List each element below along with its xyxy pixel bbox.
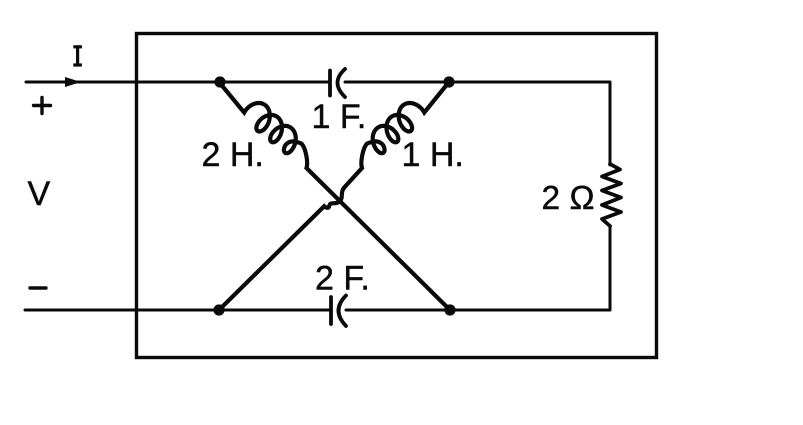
svg-text:V: V <box>28 175 51 213</box>
svg-text:2 Ω: 2 Ω <box>542 180 595 217</box>
label − <box>30 286 46 289</box>
svg-text:2 H.: 2 H. <box>202 136 264 174</box>
svg-text:2 F.: 2 F. <box>315 260 370 298</box>
resistor R1 <box>602 164 621 226</box>
node A <box>214 76 225 87</box>
current arrow I <box>65 77 81 87</box>
label I <box>73 47 82 65</box>
inductor L2 <box>219 82 449 310</box>
wire right vertical top <box>609 82 612 165</box>
node B <box>443 76 454 87</box>
enclosure box <box>137 34 657 358</box>
wire bottom right segment <box>346 309 610 312</box>
node C <box>213 304 224 315</box>
svg-text:1 F.: 1 F. <box>312 98 367 136</box>
inductor L1 <box>219 82 450 310</box>
wire top input segment <box>26 81 329 84</box>
wire right vertical bottom <box>609 226 612 310</box>
label + <box>34 98 51 114</box>
capacitor C2 <box>331 296 346 327</box>
capacitor C1 <box>330 69 345 97</box>
svg-text:1 H.: 1 H. <box>402 136 464 174</box>
wire top right segment <box>345 81 610 84</box>
wire bottom left segment <box>25 309 330 312</box>
node D <box>444 304 455 315</box>
